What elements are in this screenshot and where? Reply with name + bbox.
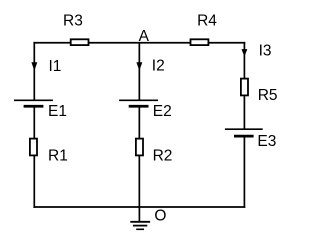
resistor R2 (136, 139, 173, 165)
resistor R1 (30, 139, 68, 165)
resistor R3 (63, 13, 89, 45)
svg-text:R4: R4 (197, 13, 217, 30)
current arrow I2 (136, 58, 164, 75)
battery E3 (225, 129, 276, 150)
wire left branch upper (corner to battery E1) (33, 42, 35, 100)
battery E1 (14, 100, 67, 120)
current arrow I1 (31, 58, 61, 75)
resistor R4 (191, 13, 218, 45)
svg-text:R1: R1 (48, 148, 68, 165)
svg-text:R3: R3 (63, 13, 83, 30)
svg-text:E3: E3 (257, 133, 276, 150)
svg-text:R5: R5 (258, 87, 278, 104)
svg-text:I2: I2 (152, 58, 165, 75)
wire right branch upper (corner to battery E3) (243, 42, 245, 129)
wire left branch lower (battery E1 to bottom rail) (33, 106, 35, 208)
wire right branch lower (battery E3 to bottom rail) (243, 136, 245, 208)
wire middle branch lower (battery E2 to bottom rail) (138, 106, 140, 207)
resistor R5 (241, 79, 278, 105)
svg-text:I1: I1 (49, 58, 62, 75)
svg-text:R2: R2 (153, 148, 173, 165)
svg-text:I3: I3 (259, 43, 272, 60)
svg-text:O: O (154, 207, 166, 224)
current arrow I3 (241, 43, 271, 60)
svg-text:A: A (139, 28, 150, 45)
svg-text:E1: E1 (48, 103, 67, 120)
ground at node O (130, 207, 150, 229)
wire bottom horizontal (33, 206, 245, 208)
svg-text:E2: E2 (153, 103, 172, 120)
wire middle branch upper (node A to battery E2) (138, 42, 140, 100)
wire top horizontal (rail through node A) (33, 42, 245, 44)
battery E2 (119, 100, 172, 120)
